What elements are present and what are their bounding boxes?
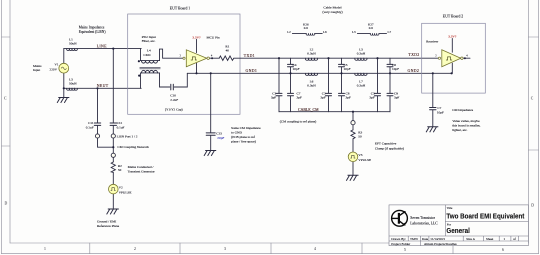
svg-text:0.6: 0.6 [304,26,308,30]
svg-text:2.2nF: 2.2nF [170,98,178,102]
wire LINE [64,48,141,50]
capacitor C5 [339,64,345,66]
svg-text:Size A: Size A [466,237,475,241]
generator port circle [111,153,115,157]
svg-text:General: General [446,226,470,235]
svg-text:Two Board EMI Equivalent: Two Board EMI Equivalent [446,212,524,221]
capacitor C11 [94,123,100,125]
svg-text:C: C [531,97,534,101]
svg-text:EUT Board 2: EUT Board 2 [443,14,463,18]
svg-text:Clamp (if applicable): Clamp (if applicable) [375,147,404,151]
junction C7 branch on GND row [432,72,434,74]
svg-text:Seven Transistor: Seven Transistor [410,216,435,220]
wire C12 branch [112,49,114,209]
transformer L4 CMC windings [141,60,160,62]
svg-text:EUT Board 1: EUT Board 1 [170,7,190,11]
inductor L3 [67,88,78,90]
svg-text:(very roughly): (very roughly) [322,10,343,14]
svg-text:L7: L7 [388,30,392,34]
wire C3 column [377,58,379,111]
resistor R2 [111,162,115,173]
capacitor C3 [375,93,381,95]
wire C10 to GND1 rail [174,73,187,87]
svg-text:6: 6 [502,248,504,252]
svg-text:3.3V?: 3.3V? [192,36,201,40]
resistor R1 [219,56,234,60]
svg-text:10pF: 10pF [344,67,351,71]
label Mains Input [33,64,42,72]
svg-text:GND2: GND2 [408,69,420,73]
junction driver gnd pin on rail [195,72,197,74]
wire rail to R3 [352,112,354,176]
inductor L2 [305,58,317,60]
svg-text:0.1uF: 0.1uF [86,126,94,130]
svg-text:D: D [531,204,534,208]
svg-text:VPULSE: VPULSE [119,190,132,194]
svg-text:Mains Impedance: Mains Impedance [79,26,105,30]
label Mains Conducted / Transient Generator [128,165,156,173]
svg-text:Date: Date [422,237,429,241]
wire GND1 rail [187,72,451,74]
svg-text:Equivalent (LISN): Equivalent (LISN) [79,30,107,34]
capacitor C7 [288,93,294,95]
svg-text:C7: C7 [437,106,441,110]
junction C6/C9 on GND row [389,72,391,74]
junction C1 on TXD row [278,57,280,59]
svg-text:Some CM Impedance: Some CM Impedance [231,126,261,130]
capacitor C8 [339,93,345,95]
svg-text:50: 50 [118,168,122,172]
junction C4/C7 on GND row [289,72,291,74]
wire C4/C7 column [290,58,292,111]
svg-text:10pF: 10pF [392,67,399,71]
wire C11 branch [98,88,114,147]
svg-text:Ground / EMI: Ground / EMI [97,219,117,223]
svg-text:(CM coupling to ref plane): (CM coupling to ref plane) [280,120,317,124]
logo Seven Transistor Laboratories [392,210,408,226]
ground below C7 [426,127,438,132]
svg-text:50: 50 [358,135,362,139]
svg-text:40: 40 [226,49,230,53]
svg-text:10pF: 10pF [293,67,300,71]
svg-text:20pF: 20pF [217,136,224,140]
svg-text:50uH: 50uH [69,81,77,85]
transformer core lines [140,67,160,69]
wire C13 branch [210,73,212,150]
svg-text:(PCB plane to ref: (PCB plane to ref [231,135,256,139]
LISN port 2 circle [111,134,115,138]
svg-text:Altium Projects/Doodles: Altium Projects/Doodles [424,242,457,246]
svg-text:0.3uH: 0.3uH [307,83,316,87]
wire receiver power pin [451,39,453,53]
svg-text:NEUT: NEUT [97,84,109,88]
svg-text:Transient Generator: Transient Generator [128,170,156,174]
wire driver output to R1 [209,57,219,59]
svg-text:C13: C13 [216,132,222,136]
svg-text:C10: C10 [170,94,176,98]
svg-text:11/14/2021: 11/14/2021 [430,237,445,241]
svg-text:3: 3 [224,247,226,251]
junction C5/C8 on GND row [340,72,342,74]
svg-text:0.1uF: 0.1uF [117,126,125,130]
svg-text:4: 4 [314,247,316,251]
svg-text:CM Impedance: CM Impedance [452,108,473,112]
svg-text:(Y1/Y2 Cap): (Y1/Y2 Cap) [165,108,183,112]
ground below C13 [204,151,216,156]
wire C7 branch (CM impedance) [432,73,434,127]
svg-text:Mains Conducted /: Mains Conducted / [128,165,154,169]
label Some CM Impedance to GND [231,126,261,144]
gate U2 receiver [438,50,463,67]
LISN port 1 circle [95,134,99,138]
wire C5/C8 column [341,58,343,111]
svg-text:TXD1: TXD1 [244,54,255,58]
board outline EUT Board 1 [128,14,240,114]
svg-text:VPULSE: VPULSE [358,158,371,162]
svg-text:V3: V3 [358,153,362,157]
inductor L7 [355,73,367,75]
svg-text:L6: L6 [323,30,327,34]
svg-text:L3: L3 [352,30,356,34]
wire TXD row [234,57,438,59]
wire CMC bottom-right lead to C10 [160,73,170,87]
wire CABLE_CM rail [279,111,390,113]
capacitor C2 [326,93,332,95]
svg-text:MCU Pin: MCU Pin [207,36,220,40]
label Mains Impedance Equivalent (LISN) [79,26,107,35]
svg-text:3pF: 3pF [346,96,351,100]
wire receiver output stub [463,57,470,59]
wire CMC top-left lead [140,49,142,61]
svg-text:Input: Input [33,68,40,72]
wire driver ground pin [196,63,198,73]
svg-text:3.3V?: 3.3V? [448,34,457,38]
svg-text:C11: C11 [88,121,94,125]
svg-text:TXD2: TXD2 [408,53,419,57]
junction NEUT/V1 [63,87,65,89]
svg-text:V2: V2 [119,186,123,190]
label Ground / EMI Reference Plane [97,219,120,228]
svg-text:V1: V1 [54,62,58,66]
wire CMC bottom-left lead [140,73,142,88]
capacitor C13 [206,133,215,135]
junction CM coupling [112,146,114,148]
svg-text:10pF: 10pF [437,111,444,115]
coupling K26 symbol [292,33,322,35]
svg-text:Receiver: Receiver [426,40,439,44]
svg-text:0.3uH: 0.3uH [307,52,316,56]
wire NEUT [64,87,141,89]
svg-text:Reference Plane: Reference Plane [97,224,120,228]
inductor L6 [305,73,317,75]
junction C2 on TXD row [327,57,329,59]
svg-text:GND1: GND1 [246,69,258,73]
svg-text:CABLE_CM: CABLE_CM [298,108,319,112]
capacitor C9 [387,93,393,95]
junction rail to R3 [352,111,354,113]
label PSU Input Filter, etc. [142,35,156,44]
voltage source V2 VPULSE [109,184,119,194]
svg-text:2: 2 [134,247,136,251]
svg-text:CM Coupling Network: CM Coupling Network [117,145,149,149]
svg-text:3pF: 3pF [320,96,325,100]
svg-text:0.3uH: 0.3uH [357,83,366,87]
wire receiver ground pin [451,63,453,73]
wire C2 column [328,58,330,111]
svg-text:1: 1 [44,247,46,251]
wire C1 column [278,58,280,111]
transformer phase dot top [138,60,140,62]
wire V1 bottom lead to ground [63,73,65,98]
gate U1 driver [183,50,210,67]
svg-text:LISN Port 1 / 2: LISN Port 1 / 2 [117,135,138,139]
svg-text:Title: Title [447,206,453,210]
port circle above R3 [351,121,355,125]
ground below V3 [346,175,358,180]
svg-text:0.3uH: 0.3uH [357,52,366,56]
svg-text:L4: L4 [147,48,151,52]
svg-text:LINE: LINE [97,44,107,48]
board outline EUT Board 2 [422,23,486,93]
svg-text:Cable Model: Cable Model [323,5,341,9]
junction on driver output [211,57,213,59]
ground below V1 [57,98,69,103]
svg-text:3pF: 3pF [271,96,276,100]
svg-text:50uH: 50uH [69,42,77,46]
capacitor C1 [276,93,282,95]
wire driver power pin [196,39,198,52]
junction NEUT/C11 [96,87,98,89]
svg-text:to GND: to GND [231,130,242,134]
resistor R3 [351,129,355,138]
wire C6/C9 column [389,58,391,111]
svg-text:C12: C12 [117,121,123,125]
inductor L1 [67,49,78,51]
svg-text:CMC: CMC [143,53,151,57]
transformer phase dot bottom [138,75,140,77]
svg-text:D: D [5,202,8,206]
inductor L3 [355,58,367,60]
junction C13 branch on rail [210,72,212,74]
capacitor C10 [171,84,174,90]
svg-text:0.6: 0.6 [369,26,373,30]
svg-text:Sheet: Sheet [486,237,493,241]
label Value varies note [452,119,480,133]
junction on receiver output stub [464,57,466,59]
junction receiver gnd pin [451,72,453,74]
svg-text:220V: 220V [50,67,58,71]
voltage source V1 [59,63,69,73]
svg-text:5: 5 [404,248,406,252]
wire V1 top lead [63,49,65,64]
ground below V2 (EMI reference plane) [107,209,119,214]
svg-text:EFT Capacitive: EFT Capacitive [375,141,397,145]
svg-text:TMW: TMW [410,237,419,241]
svg-text:L2: L2 [287,30,291,34]
capacitor C6 [387,64,393,66]
svg-text:Project Folder: Project Folder [391,242,411,246]
junction C3 on TXD row [376,57,378,59]
capacitor C12 [110,123,116,125]
svg-text:3pF: 3pF [297,96,302,100]
capacitor C4 [288,64,294,66]
label Cable Model (very roughly) [322,5,343,14]
coupling K27 symbol [357,33,386,35]
voltage source V3 VPULSE [348,152,358,162]
svg-text:3pF: 3pF [369,96,374,100]
junction LINE/C12 [112,48,114,50]
svg-text:plane / free space): plane / free space) [231,140,256,144]
svg-text:Drawn By:: Drawn By: [391,237,406,241]
wire CMC top-right lead to driver input [160,49,183,61]
svg-text:3pF: 3pF [394,96,399,100]
capacitor C7 board2 [430,108,436,110]
label EFT Capacitive Clamp [375,141,404,150]
